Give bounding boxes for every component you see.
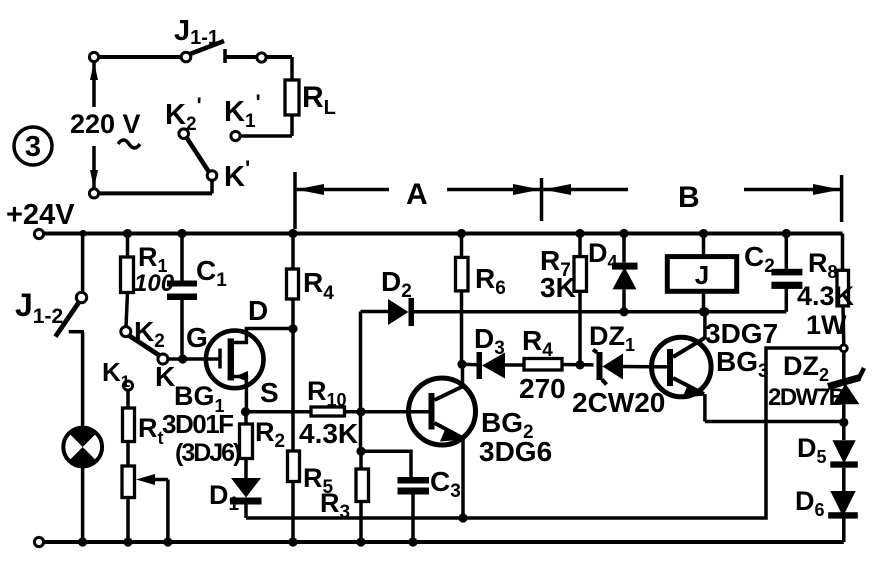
220V source left vertical with arrows — [90, 61, 98, 189]
capacitor C3 — [361, 451, 429, 542]
node top-left terminal — [89, 52, 98, 61]
switch J1-2 — [55, 234, 86, 429]
wire top rail — [44, 232, 843, 236]
node bottom-left terminal — [34, 537, 43, 546]
diode D4 — [612, 234, 638, 312]
wire base node to BG2 — [361, 410, 429, 414]
resistor R10 — [311, 407, 361, 416]
svg-text:K: K — [155, 361, 175, 392]
contact K1 — [123, 381, 132, 390]
node BG3 collector — [700, 307, 709, 316]
node R7 bottom — [575, 360, 584, 369]
svg-text:J: J — [695, 260, 709, 290]
svg-text:3K: 3K — [540, 272, 576, 303]
node R3 top — [356, 447, 365, 456]
relay J — [667, 234, 736, 312]
junction dots on top rail — [79, 230, 86, 237]
junction dots on 312 bus — [619, 307, 628, 316]
svg-text:4.3K: 4.3K — [299, 418, 358, 449]
contact K2' — [179, 129, 189, 139]
resistor R2 — [240, 412, 253, 478]
node base — [356, 407, 365, 416]
svg-text:(3DJ6): (3DJ6) — [175, 439, 241, 467]
wire S to R10 — [246, 410, 312, 414]
node bottom-left terminal — [89, 189, 98, 198]
svg-text:+24V: +24V — [6, 199, 75, 231]
node +24V terminal — [34, 229, 43, 238]
node S — [241, 407, 250, 416]
switch blade K2-K — [129, 336, 160, 356]
node drain — [288, 324, 297, 333]
contact K2 — [121, 327, 131, 337]
svg-text:220 V: 220 V — [70, 109, 141, 139]
MOSFET BG1 — [206, 329, 293, 412]
figure number badge 3 — [14, 127, 52, 165]
wire bottom rail — [44, 540, 844, 544]
capacitor C1 — [167, 234, 197, 360]
svg-text:4.3K: 4.3K — [797, 281, 855, 311]
zener DZ1 — [593, 350, 652, 385]
resistor R7 — [574, 234, 587, 365]
diode D6 — [828, 491, 858, 542]
capacitor C2 — [771, 234, 802, 312]
resistor Rt — [123, 390, 135, 466]
svg-text:A: A — [406, 178, 428, 211]
node emitter BG2 on wire — [458, 513, 467, 522]
switch blade K2'-K' — [187, 138, 210, 173]
svg-text:2DW7B: 2DW7B — [768, 384, 846, 411]
contact K1' — [231, 131, 240, 140]
wire K' down and bottom wire — [99, 180, 212, 193]
transistor BG2 — [409, 364, 476, 518]
potentiometer wiper arrow — [136, 474, 168, 542]
svg-text:2CW20: 2CW20 — [572, 387, 665, 418]
potentiometer body — [122, 466, 135, 542]
wire D2 branch vertical — [359, 312, 363, 452]
svg-text:270: 270 — [519, 373, 566, 404]
diode D2 — [361, 298, 415, 326]
resistor R8 — [837, 234, 849, 346]
node DZ2-D5 — [839, 418, 848, 427]
node R8-DZ2 junction — [840, 345, 847, 352]
wire BG3 emitter to right — [705, 420, 844, 424]
svg-text:3D01F: 3D01F — [162, 409, 233, 439]
diode D3 — [462, 352, 524, 379]
node collector BG2 — [457, 360, 466, 369]
resistor RL — [285, 57, 299, 136]
contact K' — [207, 171, 217, 181]
svg-text:K1': K1' — [224, 90, 261, 132]
label R1 100 — [134, 242, 175, 297]
wire RL to K1' — [240, 134, 292, 138]
node G — [178, 354, 187, 363]
switch J1-1 — [181, 41, 292, 63]
svg-text:D: D — [248, 295, 268, 326]
zener DZ2 — [828, 352, 864, 423]
resistor R4 line with R5 — [287, 234, 300, 543]
label 220V — [70, 109, 141, 148]
svg-text:B: B — [678, 181, 700, 214]
svg-text:S: S — [260, 377, 279, 408]
wire K to G — [168, 357, 219, 361]
dimension line A — [295, 172, 541, 229]
resistor R4b 270 — [524, 359, 594, 371]
svg-text:3DG6: 3DG6 — [479, 436, 552, 467]
svg-text:3DG7: 3DG7 — [705, 318, 778, 349]
junction dots on bottom rail — [78, 537, 87, 546]
dimension line B — [542, 175, 842, 222]
svg-text:K2': K2' — [165, 93, 202, 135]
diode D5 — [830, 422, 858, 491]
diode D1 — [230, 478, 262, 518]
contact K — [158, 354, 168, 364]
wire top to switch — [99, 55, 182, 59]
resistor R3 — [356, 451, 369, 542]
svg-text:3: 3 — [25, 131, 41, 163]
svg-text:G: G — [186, 322, 208, 353]
wire collector bus 312 — [413, 310, 786, 314]
resistor R6 — [456, 234, 469, 365]
svg-text:1W: 1W — [806, 310, 847, 340]
wire feedback box — [246, 348, 841, 518]
transistor BG3 — [652, 312, 712, 422]
resistor R1 — [121, 234, 134, 328]
lamp (photocell) — [63, 428, 102, 542]
